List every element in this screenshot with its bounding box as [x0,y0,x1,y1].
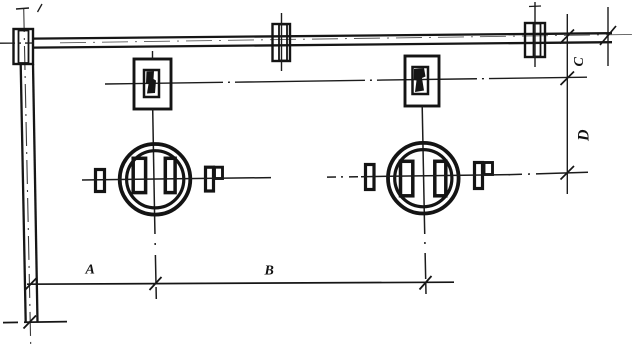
switch box S1 inner [144,70,159,97]
svg-text:D: D [576,129,593,142]
svg-text:C: C [572,57,587,67]
middle box centerline [281,13,283,71]
bottom dimension line [27,282,454,284]
slash tick at lamp centerline crossing [561,166,575,180]
switch box S2 outer [405,56,439,106]
middle box inner rect [279,25,287,61]
wall end extension line [607,7,609,66]
switch S2 drop line solid [422,106,424,214]
lamp L1 right terminal small square [215,167,223,178]
lamp L1 right terminal tall rect [206,167,214,191]
slash tick at wall base [24,316,37,329]
corner box inner rect [19,31,29,64]
left wall centerline [24,8,31,345]
right box top tick [529,5,541,8]
lamp L2 inner circle [395,150,452,207]
lamp centerline right dash-dot [510,172,588,174]
ceiling run lower line [33,42,612,47]
lamp L1 right tube [165,158,175,192]
lamp L1 inner circle [127,151,184,208]
switch S2 filled mark [414,68,426,92]
switch S1 drop line dashed [155,216,157,299]
switch S1 drop line solid [153,109,155,216]
switch box S1 outer [134,59,171,109]
switch S2 drop line dashed [424,214,426,294]
switch S1 stub above [152,51,154,60]
wall end slash tick [600,26,616,45]
slash tick below lamp L1 [150,277,162,290]
lamp L2 outer circle [388,143,459,214]
lamp centerline through lamp L2 [361,175,510,177]
lamp L2 left tube [401,161,413,196]
slash tick at wall crossing [560,30,574,44]
lamp L1 left tube [133,158,145,192]
right ceiling box [525,23,545,57]
lamp centerline left segment [82,178,271,180]
corner box horizontal centerline [0,42,34,44]
lamp L2 right tube [435,161,446,196]
ceiling run upper line [33,33,612,38]
svg-text:B: B [264,264,274,279]
switch centerline [105,77,587,84]
lamp centerline middle dash-dot [327,176,361,178]
lamp L2 right terminal small square [484,163,493,175]
ceiling run centerline [60,34,635,42]
lamp L1 left terminal rect [96,170,105,192]
small diagonal mark top-left [38,4,43,12]
C/D dimension line [566,14,568,194]
slash tick at wall [25,278,37,291]
slash tick below lamp L2 [420,276,432,290]
switch S1 filled mark [146,71,156,94]
right box centerline [534,2,536,67]
right box inner rect [534,24,541,57]
lamp L2 left terminal rect [366,165,375,190]
svg-text:A: A [85,263,95,278]
lamp L2 right terminal tall rect [475,163,483,189]
slash tick at switch centerline crossing [561,72,575,86]
corner junction box [14,29,34,64]
tick at top of left wall centerline [16,8,29,9]
left wall outer line [21,64,26,322]
lamp L1 outer circle [120,144,191,215]
left wall inner line [33,64,38,322]
bottom-left base line [3,322,67,323]
switch box S2 inner [413,67,429,94]
middle ceiling box [273,24,291,61]
